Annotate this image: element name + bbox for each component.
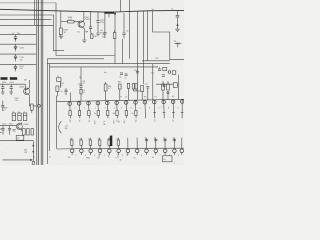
pin A8 [134,101,138,105]
resistor R516 body [113,33,116,39]
wire Q503 collector [28,80,31,88]
resistor RB2 [80,140,82,145]
pin B7 [126,149,130,153]
wire net N5 lower [108,138,110,149]
resistor R503 body [68,20,75,23]
wire net N7 upper [125,101,128,119]
box U3b [172,71,176,75]
resistor RL3 body [31,129,34,135]
diode DR1 arrow [14,38,16,40]
pin A1 [68,102,72,106]
wire Q505 emitter [20,129,23,131]
wire row1 [0,34,36,36]
wire V152 [152,64,154,100]
wire C513 tail [97,35,99,37]
wire net N13 upper [181,100,183,119]
capacitor C523 lower lead [177,17,179,29]
wire CT lead [159,67,161,69]
wire C504 tail [2,88,4,92]
pin B6 [117,149,121,153]
pin B13 [180,149,184,153]
capacitor CR1 plates [14,37,17,38]
resistor RB1 [71,140,73,145]
capacitor C517 plates [122,33,125,35]
wire R41 top [162,81,164,84]
wire bottom feed [3,159,31,161]
wire vertical V137 [136,11,138,100]
wire Q505 collector [20,122,23,124]
pin A9 [143,100,147,104]
wire net N3 lower [90,138,92,149]
wire pin B9 stub [146,153,148,155]
node J177 [177,24,179,26]
wire pin B8 stub [136,153,138,155]
wire net N4 lower [99,138,101,149]
pin A2 [77,102,81,106]
capacitor CR4 plates [14,66,17,67]
wire vertical connector left [56,102,58,149]
wire C514 lead [80,87,82,101]
wire net N12 lower [173,138,175,149]
wire vertical V147 [147,11,149,61]
connector strip B rail [57,147,184,150]
resistor RN4 [97,111,99,116]
pin B12 [173,149,177,153]
wire vertical V143 [143,11,145,84]
TOPCLUSTER [59,11,129,43]
resistor R507 body [56,86,59,91]
wire C511 stub [90,28,92,33]
wire R18 lead [105,91,107,101]
wire C506 tail [10,88,12,92]
node tick edge a [0,129,2,133]
wire mid rail M1 [56,55,115,57]
diode DR2 arrow [14,48,16,50]
wire net N2 upper [78,102,81,119]
box BL2 [32,162,34,165]
resistor R513 body [30,104,33,110]
wire pin B10 stub [155,153,157,155]
capacitor C33 plates [146,86,149,88]
ground G505 [59,36,63,39]
resistor R31 body [119,84,122,89]
capacitor C71 plates [120,73,123,75]
wire vertical from bus line 1 [55,3,57,56]
wire net N13 lower [181,138,183,149]
pin B10 [154,149,158,153]
pin B2 [80,149,84,153]
node tick T10 [153,112,156,114]
wire vertical left M3 drop [46,59,48,164]
wire pin B2 stub [80,153,82,155]
wire Q505 rail [0,125,17,127]
capacitor C523 plates [176,15,180,17]
resistor RN7 [125,111,127,116]
wire net N12 upper [172,100,175,118]
capacitor CL2 lead [9,126,11,129]
capacitor C513b plates [96,33,99,35]
wire R33 lead [141,92,143,101]
wire R42 lead [167,94,169,100]
LEFTROWS [0,33,36,80]
capacitor CB12 plates [173,139,176,141]
resistor R18 body [104,84,107,91]
ground GC506 [9,92,13,94]
wire R520 tick [91,33,93,34]
capacitor C22 plates [162,75,165,77]
wire R516 lead [114,30,116,33]
wire vertical V114 [122,39,124,64]
box B77 [57,78,62,82]
wire pin B6 stub [118,153,120,155]
resistor RN6 [116,111,118,116]
capacitor CR1 lead [15,35,17,37]
wire vertical bus A [36,0,38,165]
transistor Q501 [78,21,85,28]
wire net N9 upper [144,101,147,119]
wire Q503 base [24,84,26,89]
wire net N11 lower [164,138,166,149]
wire mid rail M4 [50,66,159,68]
wire C33 lead [147,88,149,100]
resistor RB3 [89,140,91,145]
arrow bottom feed [30,159,33,161]
label board bar 1 [1,77,8,80]
capacitor C506 plates [10,87,13,89]
capacitor C516 plates [136,71,139,73]
STRIPS [0,32,184,165]
wire net N9 lower [145,138,147,149]
wire mid rail M3 [47,63,169,65]
resistor RB5 [108,140,110,145]
wire D9 stub [177,45,179,48]
ground G523 [175,29,179,32]
wire pin B1 stub [71,153,73,155]
pin B8 [135,149,139,153]
wire vertical bus E short [34,0,36,25]
resistor RN2 [78,111,80,116]
capacitor C513 plates [96,21,99,23]
capacitor C66 lead [65,88,67,90]
node J42 [167,92,169,94]
wire net N10 lower [155,138,157,149]
electrolytic E3 plate [23,114,26,116]
wire R34 join [133,89,143,91]
diode DR3 arrow [14,58,16,60]
wire row1 tail [15,41,17,42]
wire stub node B+ [53,50,64,52]
scan noise overlay [0,0,184,165]
wire R41 lead [162,90,164,100]
wire vertical V130 [128,0,130,59]
wire net N8 upper [135,101,138,119]
capacitor C504 plates [1,87,4,89]
wire pin B7 stub [127,153,129,155]
diode D9 [175,43,177,45]
wire row3 [0,53,36,55]
capacitor CB11 plates [164,139,167,141]
wire C508 tail [2,107,4,111]
capacitor CB9 plates [145,139,148,141]
wire net N2 lower [80,138,82,149]
wire B77 drop [59,81,61,88]
pin A7 [124,101,128,105]
capacitor CL3 plates [13,130,16,132]
capacitor CL1 lead [2,126,4,129]
brace winding [59,122,62,134]
wire net N3 upper [88,102,91,119]
wire main supply line [0,9,184,12]
wire pin B12 stub [173,153,175,155]
wire C515 tail [104,34,106,38]
LEFTAMP [0,80,40,164]
capacitor C523 top right lead [177,11,179,16]
bold bus segment [104,12,114,14]
capacitor CR2 lead [15,44,17,46]
wire vertical V122 [114,13,116,63]
resistor RB6 [117,140,119,145]
pin B9 [145,149,149,153]
pin A6 [115,101,119,105]
pin B1 [70,149,74,153]
resistor RN8 [135,111,137,116]
capacitor CR2 plates [14,46,17,47]
resistor R33 body [141,86,144,92]
pin B3 [89,149,93,153]
connector ring [38,105,41,108]
box BL1 [16,136,24,141]
wire pin B5 stub [108,153,110,155]
capacitor C506 lead [10,84,12,86]
wire net N6 lower [117,138,119,149]
resistor R505 body [59,28,62,35]
wire row4 [0,63,36,65]
wire net N1 upper [69,102,72,118]
wire net N7 lower [127,138,129,149]
wire R34b stub [135,89,137,91]
wire top bus line 4 [0,19,52,21]
wire pin B3 stub [90,153,92,155]
wire vertical bus B [37,0,39,165]
wire R31 lead [119,89,121,101]
wire low rail [0,140,33,142]
box relay BR [162,156,172,162]
wire lead C515 [104,12,106,32]
capacitor C517 lead [123,13,125,33]
resistor R42 body [167,84,170,90]
wire top bus line 3 [0,15,54,51]
box R520 [91,34,94,39]
box U4 [173,83,177,88]
resistor R34b body [135,84,137,90]
wire pin B11 stub [164,153,166,155]
wire net N8 lower [136,138,138,149]
wire R513 lead [31,110,33,113]
wire C517 tail [123,35,125,39]
resistor R32 body [127,83,129,88]
wire mid rail M2 [47,58,104,60]
node tick T13 [181,112,184,114]
wire lead C511 [90,11,92,26]
wire net N6 upper [116,101,119,118]
wire CL2 tail [9,130,11,135]
resistor RN3 [88,111,90,116]
pin A3 [87,101,91,105]
capacitor CR4 lead [15,64,17,66]
pin A4 [96,101,100,105]
resistor R34a body [132,84,134,90]
pin A13 [180,100,184,104]
wire R18 top lead [105,82,107,84]
electrolytic E3 body [23,113,26,121]
capacitor CT plates [158,69,161,71]
wire R42 top [167,81,169,84]
pin A10 [153,100,157,104]
wire right mid rail [156,83,178,85]
node J84 [163,85,165,87]
resistor RN1 [69,111,71,116]
wire top bus line 1 [0,2,56,4]
capacitor C72 plates [125,74,128,76]
ground GC504 [1,92,5,94]
capacitor C66 plates [65,90,68,92]
resistor RB4 [99,140,101,145]
box U3a [163,67,167,70]
wire vertical left M4 drop [49,64,51,151]
capacitor C504 lead [2,84,4,86]
wire pin B13 stub [181,153,183,155]
wire C514 upper lead [80,67,82,86]
node JL1 [32,145,34,147]
resistor RN5 [107,111,109,116]
pin A11 [162,100,166,104]
wire Q503 emitter [29,94,36,106]
wire net N5 upper [106,101,109,118]
MAIN-LINES [0,0,184,165]
wire net N4 upper [97,101,100,118]
connector strip A rail [57,99,185,101]
resistor R41 body [162,84,165,90]
capacitor C508 plates [1,105,4,107]
wire R503 to base [74,22,79,27]
transistor Q505 [16,123,22,129]
wire C513 mid [97,22,99,33]
electrolytic E1 body [12,113,15,121]
wire RL drop [32,141,34,164]
wire row3 tail [15,60,17,61]
wire row2 [0,43,36,45]
ground GC66 [65,93,67,94]
wire Q501 emitter [83,28,84,40]
wire lead C513 [97,12,99,20]
wire R32 lead [128,88,130,100]
capacitor CB10 plates [154,139,157,141]
wire net N1 lower [71,138,73,149]
wire vertical bus C [40,0,42,165]
bold cable bar [110,136,113,147]
ground G501 [82,40,86,43]
capacitor CR3 lead [15,54,17,56]
wire row2 tail [15,50,17,51]
capacitor C514 plates [79,86,82,88]
wire vertical bus D [42,0,44,165]
wire row4 tail [15,70,17,71]
capacitor CL1 plates [1,128,4,130]
wire net N11 upper [163,100,166,118]
wire right inner h [142,60,170,62]
capacitor C511 plates [89,27,92,28]
transistor Q7 [168,71,171,74]
wire R505 to ground [60,35,62,37]
node J122 [114,13,116,15]
wire R507 lead [56,91,59,101]
electrolytic E1 plate [12,114,15,116]
capacitor C508 lead [2,101,4,106]
capacitor CR3 plates [14,56,17,57]
wire V178 [178,75,180,100]
pin A5 [106,101,110,105]
wire base feed [61,21,68,23]
label board bar 2 [10,77,17,80]
capacitor C515 plates [103,32,106,34]
wire top bus line 5 [0,24,53,26]
resistor RL1 body [23,129,26,135]
capacitor CL2 plates [8,128,11,130]
pin B11 [163,149,167,153]
wire pin B4 stub [99,153,101,155]
wire tick under bold segment [108,14,110,18]
wire vertical V120 stub [120,0,122,12]
wire pin A1 upper lead [69,93,71,102]
wire CL1 tail [2,130,4,135]
node tick T11 [163,112,166,114]
pin A12 [171,100,175,104]
wire base rail [0,83,25,85]
diode DR4 arrow [14,68,16,70]
wire lead R505 from supply [60,11,62,28]
pin B5 [108,149,112,153]
node tick T12 [172,112,175,114]
resistor R514 on lead [80,89,82,94]
electrolytic E2 plate [18,114,21,116]
node JL2 [32,151,34,153]
wire net N10 upper [153,100,156,118]
electrolytic E2 body [18,113,21,121]
resistor RL2 body [27,129,30,135]
wire step path right [153,11,185,60]
pin B4 [98,149,102,153]
wire Q501 collector [82,11,85,21]
transistor Q503 [24,88,30,94]
